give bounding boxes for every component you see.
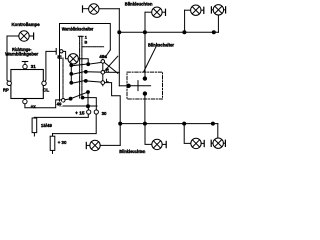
hazard switch box Warnblinkschalter: [60, 24, 111, 107]
wire Kontrollampe to RP: [7, 36, 13, 82]
actuator dash-dot lines: [63, 37, 104, 99]
wire pilot lamp to contact: [78, 59, 88, 64]
svg-text:RP: RP: [3, 87, 9, 92]
svg-text:31: 31: [57, 54, 62, 59]
flasher unit box: [11, 70, 43, 99]
fuse +30: [50, 134, 55, 154]
lamp top D: [211, 5, 225, 15]
svg-text:B: B: [85, 39, 88, 44]
wire fuse 15/49 to +15: [34, 114, 88, 118]
bottom bus: [119, 122, 218, 138]
wire L to bottom bus: [105, 83, 121, 146]
wire CL to hazard switch 31: [45, 49, 56, 82]
label 1 B: [85, 35, 88, 45]
lamp bottom G: [211, 138, 225, 148]
svg-text:49a: 49a: [99, 54, 107, 59]
label Richtungs-Warnblinkgeber: [5, 47, 38, 56]
turn signal switch box: [127, 72, 163, 99]
terminal strip line: [102, 59, 104, 86]
wire +x to 49: [25, 100, 61, 108]
wire fuse +30 to 30: [53, 114, 97, 136]
wire R to switch vertical: [105, 71, 120, 73]
terminal 31 (flasher top): [22, 62, 27, 69]
terminal CL: [42, 81, 46, 85]
wire lamp C drop: [184, 10, 186, 31]
lamp top C: [185, 5, 204, 15]
svg-text:CL: CL: [43, 87, 50, 92]
terminal 49: [61, 99, 65, 103]
lamp E1 Kontrollampe: [13, 31, 34, 41]
fuse 15/49: [32, 117, 37, 136]
svg-text:Blinkleuchten: Blinkleuchten: [119, 149, 145, 154]
label 49: [56, 102, 62, 107]
terminal 30: [94, 110, 98, 114]
svg-text:49: 49: [57, 102, 62, 107]
pilot lamp in switch: [68, 54, 78, 64]
contact column left: [70, 63, 72, 84]
wire bottom contact to bottom bus: [144, 94, 146, 124]
contact row 2: [70, 70, 101, 75]
switch pivot and lever: [127, 77, 151, 95]
lamp bottom E: [145, 124, 166, 150]
wire 30 into box: [81, 96, 96, 110]
terminal +15: [87, 110, 91, 114]
wire to Blinkschalter pivot: [119, 85, 128, 87]
lamp front-left: [83, 4, 120, 14]
lamp bottom F: [184, 124, 204, 149]
changeover arm R: [104, 56, 118, 71]
svg-text:Warnblinkschalter: Warnblinkschalter: [62, 27, 94, 32]
lamp top B: [145, 7, 165, 17]
wire lamp B / Blinkschalter vertical: [144, 12, 146, 78]
lamp bottom H: [86, 140, 120, 150]
leader line: [144, 47, 156, 72]
svg-text:+ 15: + 15: [75, 111, 85, 116]
svg-text:Kontrollampe: Kontrollampe: [12, 22, 41, 27]
terminal RP: [7, 81, 11, 85]
top bus: [118, 15, 219, 34]
svg-text:Warnblinkgeber: Warnblinkgeber: [5, 51, 38, 56]
svg-text:15/49: 15/49: [41, 123, 52, 128]
contact row 3: [70, 80, 101, 85]
svg-text:+ 30: + 30: [58, 140, 67, 145]
svg-text:Blinkleuchten: Blinkleuchten: [125, 1, 153, 6]
wire lamp to top bus: [118, 9, 120, 86]
terminal L: [101, 81, 105, 85]
terminal 49a: [101, 60, 105, 64]
contact 49 to +15: [65, 91, 90, 110]
svg-text:Blinkschalter: Blinkschalter: [148, 42, 174, 47]
terminal 31 (hazard): [60, 50, 63, 53]
svg-text:31: 31: [31, 64, 37, 69]
terminal +x (flasher bottom): [23, 99, 27, 103]
changeover arm 49a: [104, 62, 118, 73]
wire 31 to pilot lamp: [63, 51, 68, 58]
contact row 1: [70, 62, 101, 66]
actuator top serifs: [78, 35, 83, 37]
terminal R: [101, 71, 105, 75]
svg-text:30: 30: [102, 111, 107, 116]
